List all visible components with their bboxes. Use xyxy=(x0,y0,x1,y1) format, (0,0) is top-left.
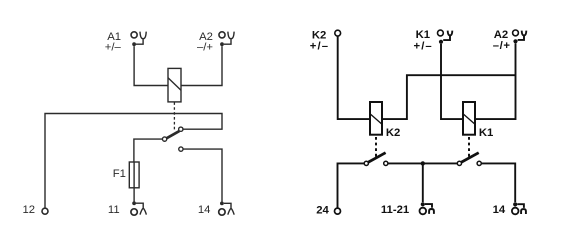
wire A2 to coil xyxy=(181,46,222,85)
wire junction down to terminal 11-21 xyxy=(422,163,424,202)
svg-text:24: 24 xyxy=(316,204,329,216)
svg-text:11: 11 xyxy=(108,204,120,216)
wire A1 to coil xyxy=(134,46,168,85)
svg-text:14: 14 xyxy=(493,204,506,216)
terminal 11-21 xyxy=(420,202,434,214)
junction node xyxy=(421,161,425,165)
contact K2: pivot circle xyxy=(364,161,368,165)
svg-text:–/+: –/+ xyxy=(493,40,511,52)
contact circle top xyxy=(179,127,183,131)
contact K2: arm xyxy=(368,153,385,162)
svg-text:11-21: 11-21 xyxy=(381,204,409,216)
wire K1 terminal to coil K1 xyxy=(441,44,463,119)
contact K1: fixed circle xyxy=(477,161,481,165)
wire A2 down to coil K1 right pin xyxy=(475,43,516,119)
contact K2: fixed circle xyxy=(384,161,388,165)
terminal 14 (right) xyxy=(512,202,526,214)
terminal 12 xyxy=(42,208,48,214)
contact pivot circle xyxy=(162,137,166,141)
terminal A1 xyxy=(131,32,146,46)
relay coil K1 xyxy=(463,102,475,135)
contact circle bottom xyxy=(179,147,183,151)
relay coil (left) xyxy=(168,68,181,102)
wire K1 fixed contact to terminal 14 xyxy=(481,163,515,202)
contact K1: pivot circle xyxy=(457,161,461,165)
svg-text:12: 12 xyxy=(23,204,36,216)
contact moving arm xyxy=(167,131,180,138)
svg-text:+/–: +/– xyxy=(310,41,329,53)
svg-text:–/+: –/+ xyxy=(197,42,213,54)
fuse F1 xyxy=(129,162,139,188)
terminal A2 xyxy=(219,32,234,46)
dashed link K2 xyxy=(375,137,377,157)
svg-text:F1: F1 xyxy=(113,168,126,180)
wire K2 fixed contact to K1 pivot xyxy=(388,162,457,164)
wire K2 terminal to coil K2 xyxy=(338,36,370,119)
wire coil K2 right pin up and across to A2 line xyxy=(382,75,516,119)
wire bottom contact to terminal 14 xyxy=(183,149,222,202)
relay coil K2 xyxy=(370,102,382,135)
terminal A2 (right) xyxy=(513,30,527,43)
svg-text:K2: K2 xyxy=(386,127,400,139)
terminal 24 xyxy=(335,208,341,214)
terminal 14 xyxy=(219,202,235,216)
wire pivot to fuse xyxy=(134,139,163,162)
terminal K1 xyxy=(438,30,453,44)
terminal 11 xyxy=(131,201,146,215)
dashed link K1 xyxy=(468,137,470,157)
svg-text:14: 14 xyxy=(198,204,211,216)
terminal K2 xyxy=(335,30,341,36)
svg-text:K1: K1 xyxy=(479,127,493,139)
svg-text:K1: K1 xyxy=(416,29,430,41)
contact K1: arm xyxy=(462,153,479,162)
dashed actuator link xyxy=(173,102,175,131)
svg-text:+/–: +/– xyxy=(414,41,433,53)
svg-text:+/–: +/– xyxy=(105,42,122,54)
wire 24 up to K2 pivot xyxy=(338,163,365,208)
wire rail from 12 up and across to top contact xyxy=(45,114,222,209)
wire fuse to terminal 11 xyxy=(133,188,135,202)
